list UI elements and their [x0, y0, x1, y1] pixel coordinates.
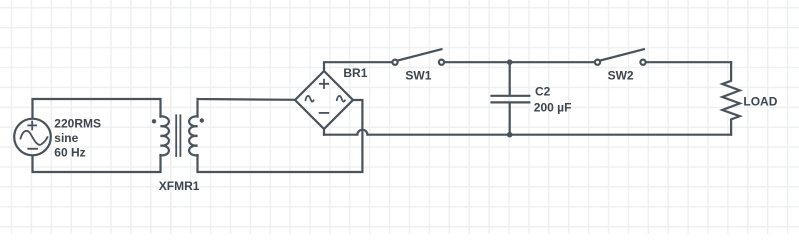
- svg-text:220RMS: 220RMS: [54, 117, 101, 131]
- svg-text:60 Hz: 60 Hz: [54, 145, 85, 159]
- svg-text:sine: sine: [54, 131, 78, 145]
- svg-text:LOAD: LOAD: [743, 95, 777, 109]
- svg-text:200 µF: 200 µF: [534, 100, 572, 114]
- svg-text:SW2: SW2: [608, 69, 634, 83]
- svg-text:C2: C2: [535, 85, 551, 99]
- svg-text:BR1: BR1: [343, 66, 367, 80]
- svg-text:XFMR1: XFMR1: [159, 179, 200, 193]
- svg-text:SW1: SW1: [405, 69, 431, 83]
